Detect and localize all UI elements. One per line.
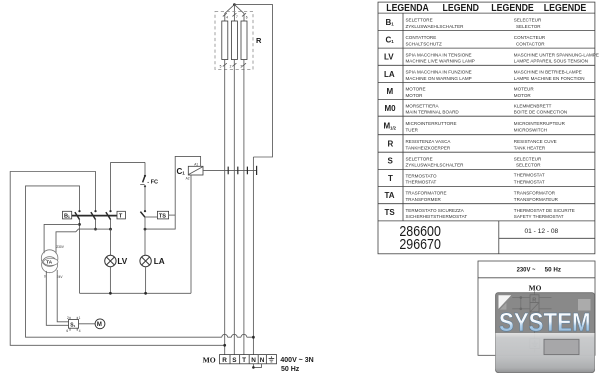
watermark metallic lower band bbox=[496, 333, 595, 373]
svg-text:1: 1 bbox=[79, 316, 81, 320]
wire LA bottom bbox=[145, 267, 147, 294]
svg-text:LEGENDE: LEGENDE bbox=[491, 3, 534, 14]
svg-text:KLEMMENBRETT: KLEMMENBRETT bbox=[514, 103, 552, 108]
lamp LA bbox=[140, 255, 151, 266]
svg-text:THERMOSTAT DE SICURITE: THERMOSTAT DE SICURITE bbox=[514, 208, 575, 213]
wire N vertical bbox=[252, 157, 254, 355]
svg-text:SYSTEM: SYSTEM bbox=[499, 307, 591, 337]
svg-text:SELECTOR: SELECTOR bbox=[516, 24, 541, 29]
svg-text:LEGEND: LEGEND bbox=[443, 3, 480, 14]
svg-text:CONTACTOR: CONTACTOR bbox=[516, 41, 545, 46]
svg-text:4: 4 bbox=[226, 16, 228, 20]
svg-text:MASCHINE UNTER SPANNUNG-LAMPE: MASCHINE UNTER SPANNUNG-LAMPE bbox=[514, 52, 599, 57]
svg-text:SPIA MACCHINA IN TENSIONE: SPIA MACCHINA IN TENSIONE bbox=[406, 52, 472, 57]
svg-text:4: 4 bbox=[79, 329, 81, 333]
wire TA primary right with hop over pole1 wire bbox=[56, 229, 96, 253]
svg-text:TRANSFORMER: TRANSFORMER bbox=[406, 197, 442, 202]
svg-text:C1: C1 bbox=[386, 36, 395, 45]
svg-text:B1: B1 bbox=[64, 214, 70, 220]
svg-text:MASCHINE IN BETRIEB-LAMPE: MASCHINE IN BETRIEB-LAMPE bbox=[514, 70, 582, 75]
heater element 3 bbox=[241, 21, 247, 60]
svg-text:MO: MO bbox=[529, 284, 542, 293]
mini terminal column bbox=[534, 292, 536, 295]
wire hop over T bbox=[241, 334, 247, 337]
wire phase T vertical bbox=[243, 60, 245, 355]
mini terminal slash box bbox=[530, 303, 539, 312]
terminal earth symbol bbox=[269, 356, 275, 362]
svg-text:MAIN TERMINAL BOARD: MAIN TERMINAL BOARD bbox=[406, 110, 460, 115]
svg-text:CONTATTORE: CONTATTORE bbox=[406, 35, 437, 40]
svg-text:MICROINTERRUTTORE: MICROINTERRUTTORE bbox=[406, 121, 457, 126]
svg-text:ZYKLUSWAEHLSCHALTER: ZYKLUSWAEHLSCHALTER bbox=[406, 24, 465, 29]
svg-text:TERMOSTATO: TERMOSTATO bbox=[406, 173, 437, 178]
svg-text:SAFETY THERMOSTAT: SAFETY THERMOSTAT bbox=[514, 214, 564, 219]
wire LV bottom bbox=[109, 267, 111, 294]
svg-text:N: N bbox=[260, 357, 265, 364]
contact tick pole R bbox=[227, 167, 229, 175]
contactor C1 coil bbox=[188, 166, 203, 175]
wire A2 down to lamp bus bbox=[190, 175, 192, 293]
svg-text:24V: 24V bbox=[57, 275, 64, 279]
svg-text:MO: MO bbox=[203, 355, 216, 364]
svg-text:RESISTENZA VASCA: RESISTENZA VASCA bbox=[406, 139, 452, 144]
contact tick pole T bbox=[246, 167, 248, 175]
svg-text:CONTACTEUR: CONTACTEUR bbox=[514, 35, 546, 40]
wire loop B: terminal N around left side to switch pole 1 (with hops) bbox=[26, 186, 254, 337]
svg-text:TRASFORMATORE: TRASFORMATORE bbox=[406, 191, 447, 196]
svg-text:THERMOSTAT: THERMOSTAT bbox=[406, 180, 437, 185]
switch B1 pole 2 contact bbox=[94, 210, 96, 212]
wire TS output to junction bbox=[169, 214, 176, 216]
wire phase S vertical bbox=[233, 60, 235, 355]
svg-text:MOTORE: MOTORE bbox=[406, 87, 426, 92]
svg-text:TRANSFORMATOR: TRANSFORMATOR bbox=[514, 191, 556, 196]
wire phase R vertical (heater el1 to terminal R) bbox=[224, 60, 226, 355]
svg-text:LAMPE APPAREIL SOUS TENSION: LAMPE APPAREIL SOUS TENSION bbox=[514, 59, 588, 64]
svg-text:0: 0 bbox=[44, 275, 46, 279]
svg-text:TS: TS bbox=[159, 214, 166, 220]
switch B1 label box bbox=[63, 211, 72, 219]
wire TA primary left to pole1 bbox=[44, 224, 79, 253]
switch B1 pole 2 blade bbox=[91, 212, 96, 220]
svg-text:TANK HEATER: TANK HEATER bbox=[514, 146, 546, 151]
pin ticks S1 bbox=[70, 317, 77, 331]
connector marks top pins bbox=[223, 13, 246, 16]
wire fan from node to heater element tops bbox=[225, 5, 244, 14]
svg-text:M: M bbox=[387, 87, 394, 96]
wire TS bottom down bbox=[144, 217, 146, 255]
svg-text:230V ~: 230V ~ bbox=[517, 266, 536, 273]
svg-text:C1: C1 bbox=[177, 167, 186, 176]
svg-text:LV: LV bbox=[117, 257, 127, 266]
wire FC to TS bbox=[144, 186, 146, 210]
resistor R dashed enclosure bbox=[215, 12, 253, 70]
svg-text:TERMOSTATO SICUREZZA: TERMOSTATO SICUREZZA bbox=[406, 208, 465, 213]
mini terminal box 4 bbox=[530, 321, 539, 330]
svg-text:M1/2: M1/2 bbox=[384, 122, 397, 131]
wire heater pin stubs top bbox=[225, 13, 244, 21]
wire pole3 lower bbox=[110, 220, 112, 230]
svg-text:5: 5 bbox=[220, 64, 222, 68]
svg-text:SELETTORE: SELETTORE bbox=[406, 18, 433, 23]
wire FC upper bbox=[144, 162, 146, 175]
switch B1 pole 1 blade bbox=[75, 212, 80, 220]
svg-text:50 Hz: 50 Hz bbox=[545, 266, 561, 273]
microswitch FC bbox=[144, 175, 146, 177]
svg-text:TA: TA bbox=[385, 191, 395, 200]
svg-text:LEGENDE: LEGENDE bbox=[544, 3, 587, 14]
wire hop over R bbox=[222, 334, 228, 337]
watermark grey panel bbox=[496, 293, 595, 373]
mini wire to n box bbox=[534, 329, 536, 338]
svg-text:6: 6 bbox=[66, 329, 68, 333]
wire heater common to N contact (right loop) bbox=[234, 5, 272, 157]
wire TA secondary 24V to S1 bbox=[57, 270, 68, 322]
svg-text:MICROINTERRUPTEUR: MICROINTERRUPTEUR bbox=[514, 121, 566, 126]
svg-text:T: T bbox=[242, 357, 246, 364]
node pole3 / LV top bbox=[109, 228, 112, 231]
svg-text:296670: 296670 bbox=[399, 237, 441, 253]
node LV on bus bbox=[109, 292, 112, 295]
jumper N1-N2 below strip bbox=[253, 364, 261, 368]
mini wire below earth bbox=[534, 349, 536, 353]
svg-text:7: 7 bbox=[236, 15, 238, 19]
svg-text:LA: LA bbox=[154, 257, 165, 266]
svg-text:MOTOR: MOTOR bbox=[514, 93, 532, 98]
svg-text:LEGENDA: LEGENDA bbox=[386, 3, 429, 14]
selector S1 bbox=[69, 320, 79, 329]
svg-text:THERMOSTAT: THERMOSTAT bbox=[514, 172, 545, 177]
svg-text:SICHERHEITSTHERMOSTAT: SICHERHEITSTHERMOSTAT bbox=[406, 214, 468, 219]
230V box frame bbox=[478, 261, 595, 355]
svg-text:2: 2 bbox=[67, 316, 69, 320]
lamp LV bbox=[105, 255, 116, 266]
svg-text:MICROSWITCH: MICROSWITCH bbox=[514, 127, 547, 132]
node loop B at terminal N wire bbox=[252, 336, 255, 339]
svg-text:400V ~ 3N: 400V ~ 3N bbox=[280, 357, 313, 364]
mini terminal box 3 bbox=[530, 312, 539, 321]
node pole2 bottom bbox=[94, 228, 97, 231]
svg-text:LA: LA bbox=[384, 70, 395, 79]
svg-text:TANKHEIZKOERPER: TANKHEIZKOERPER bbox=[406, 146, 451, 151]
svg-text:TUER: TUER bbox=[406, 127, 419, 132]
svg-text:N: N bbox=[251, 357, 256, 364]
wire S1 to motor bbox=[79, 323, 96, 325]
node loop A at terminal R wire bbox=[223, 344, 226, 347]
svg-text:ZYKLUSWAEHLSCHALTER: ZYKLUSWAEHLSCHALTER bbox=[406, 163, 465, 168]
svg-text:LV: LV bbox=[384, 53, 394, 62]
svg-text:6: 6 bbox=[246, 16, 248, 20]
wire hop over S bbox=[231, 334, 237, 337]
svg-text:MOTOR: MOTOR bbox=[406, 93, 424, 98]
svg-text:S1: S1 bbox=[70, 323, 75, 329]
svg-text:R: R bbox=[222, 357, 227, 364]
svg-text:S: S bbox=[232, 357, 237, 364]
svg-text:A1: A1 bbox=[194, 163, 198, 167]
svg-text:TRANSFORMATEUR: TRANSFORMATEUR bbox=[514, 197, 559, 202]
watermark inner box bbox=[544, 339, 579, 354]
svg-text:SELECTOR: SELECTOR bbox=[516, 163, 541, 168]
svg-text:R: R bbox=[256, 36, 262, 45]
thermostat T label box bbox=[117, 211, 125, 219]
node LA on bus bbox=[144, 292, 147, 295]
thermostat TS blade bbox=[140, 212, 145, 218]
svg-text:BOITE DE CONNECTION: BOITE DE CONNECTION bbox=[514, 110, 567, 115]
svg-text:T: T bbox=[388, 174, 393, 183]
transformer TA bbox=[41, 250, 58, 267]
terminal dividers bbox=[230, 355, 266, 364]
watermark white triangle bbox=[499, 295, 512, 309]
switch B1 pole 3 blade bbox=[106, 212, 111, 220]
wire TS blade to label box bbox=[145, 216, 157, 218]
svg-text:TA: TA bbox=[46, 260, 52, 265]
svg-text:SPIA MACCHINA IN FUNZIONE: SPIA MACCHINA IN FUNZIONE bbox=[406, 70, 472, 75]
watermark top right tile bbox=[578, 299, 591, 311]
svg-text:B1: B1 bbox=[386, 18, 395, 27]
node TS bottom / LA top bbox=[144, 228, 147, 231]
contact tick pole S bbox=[237, 167, 239, 175]
mini wires right bbox=[539, 298, 552, 309]
svg-text:A2: A2 bbox=[186, 177, 190, 181]
wire A1 to TS output bbox=[145, 156, 201, 229]
node pole1 / TA primary bbox=[78, 223, 81, 226]
wire loop A: terminal R around left side to switch pole 2 bbox=[10, 172, 225, 346]
switch B1 pole 3 contact bbox=[109, 210, 111, 212]
svg-text:SCHALTSCHUTZ: SCHALTSCHUTZ bbox=[406, 41, 442, 46]
heater element 1 bbox=[222, 21, 228, 60]
svg-text:TS: TS bbox=[385, 208, 396, 217]
heater element 2 bbox=[231, 21, 237, 60]
svg-text:2: 2 bbox=[230, 64, 232, 68]
svg-text:230V: 230V bbox=[56, 245, 64, 249]
switch B1 pole 1 contact bbox=[78, 210, 80, 212]
terminal strip MO box bbox=[220, 355, 277, 364]
wire FC branch top link bbox=[111, 161, 146, 163]
svg-text:LAMPE MACHINE EN FONCTION: LAMPE MACHINE EN FONCTION bbox=[514, 76, 585, 81]
thermostat TS label box bbox=[157, 211, 168, 219]
node heater common (top junction) bbox=[233, 3, 236, 6]
svg-text:MOTEUR: MOTEUR bbox=[514, 87, 535, 92]
contact end bar pole N bbox=[256, 166, 258, 175]
wire lamp return bus bbox=[80, 292, 192, 294]
contactor main contact bar bbox=[203, 169, 257, 171]
svg-text:- FC: - FC bbox=[147, 180, 158, 186]
wire LV top bbox=[110, 229, 112, 255]
wire switch pole 3 upper bbox=[110, 162, 112, 210]
svg-text:T: T bbox=[119, 214, 123, 220]
svg-text:R: R bbox=[388, 140, 394, 149]
node jumper bbox=[252, 366, 255, 369]
wire TA secondary 0 to S1 bbox=[46, 271, 68, 325]
watermark shadow triangle bbox=[500, 303, 507, 310]
svg-text:01 - 12 - 08: 01 - 12 - 08 bbox=[525, 228, 559, 235]
svg-text:SELECTEUR: SELECTEUR bbox=[514, 156, 542, 161]
motor M bbox=[95, 319, 105, 329]
svg-text:MACHINE LIVE WARNING LAMP: MACHINE LIVE WARNING LAMP bbox=[406, 59, 475, 64]
svg-text:3: 3 bbox=[240, 64, 242, 68]
svg-text:M0: M0 bbox=[385, 104, 397, 113]
mini earth box bbox=[530, 339, 540, 349]
mini wires left with nodes bbox=[512, 298, 530, 309]
wire pole2 lower bbox=[95, 220, 97, 230]
wire pole2 to pole3 bottom link bbox=[96, 228, 111, 230]
mini terminal R box bbox=[530, 295, 539, 303]
switch B1 mechanical bar bbox=[72, 215, 117, 217]
svg-text:S: S bbox=[388, 157, 394, 166]
svg-text:SELECTEUR: SELECTEUR bbox=[514, 18, 542, 23]
wire pole1 lower bbox=[79, 220, 81, 294]
svg-text:50 Hz: 50 Hz bbox=[281, 366, 300, 373]
thermostat TS contact bbox=[144, 210, 146, 212]
svg-text:M: M bbox=[97, 322, 102, 328]
svg-text:THERMOSTAT: THERMOSTAT bbox=[514, 180, 545, 185]
svg-text:RESISTANCE CUVE: RESISTANCE CUVE bbox=[514, 139, 557, 144]
svg-text:MACHINE ON WARNING LAMP: MACHINE ON WARNING LAMP bbox=[406, 76, 472, 81]
legend table frame bbox=[378, 2, 595, 254]
svg-text:SELETTORE: SELETTORE bbox=[406, 156, 433, 161]
connector marks bottom pins bbox=[223, 63, 246, 66]
svg-text:MORSETTIERA: MORSETTIERA bbox=[406, 103, 440, 108]
